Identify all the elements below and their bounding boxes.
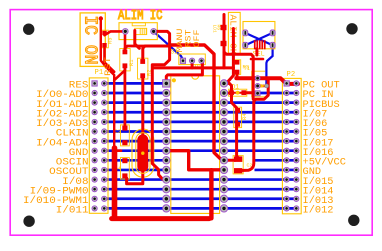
resistor R5 silkscreen box: [101, 30, 108, 48]
capacitor C3 silkscreen box: [121, 125, 130, 146]
resistor R4 silkscreen box: [234, 107, 242, 127]
wire bottom power rail: [112, 216, 210, 221]
svg-text:R1: R1: [129, 60, 135, 66]
connector P2 pads 2x14: [284, 81, 299, 211]
wire regulator center pin: [135, 31, 140, 49]
mounting hole bottom-left: [23, 216, 34, 227]
capacitor C4 silkscreen box: [121, 158, 130, 180]
left pin name labels: [23, 80, 89, 217]
wire +V spine lower: [112, 148, 118, 216]
wire R3 riser to U1 pin15: [224, 29, 233, 84]
diode D1 silkscreen box: [229, 89, 247, 96]
R5 pads: [102, 31, 106, 35]
blue trace jumper to Q1 base via: [266, 45, 272, 84]
wire T1 base stub to via: [258, 85, 265, 88]
jumper SEL pads 2x2: [243, 30, 275, 48]
wire D1 wire through: [232, 92, 244, 94]
connector J1 "IC ON" silkscreen box: [80, 13, 105, 67]
wire spine stub row7: [115, 149, 122, 152]
D1 center dot: [236, 91, 240, 95]
wire U1 pin16 to C2: [224, 159, 235, 162]
resistor R2 silkscreen box: [138, 58, 148, 79]
C4 pads: [122, 158, 127, 163]
wire from S1 area down to U1 pin16: [214, 68, 224, 160]
C2 pads: [234, 156, 242, 162]
T1 pointer mark: [261, 84, 266, 88]
SEL jumper hatched body: [254, 40, 266, 49]
svg-text:IC ON: IC ON: [80, 16, 100, 65]
svg-text:P1: P1: [95, 69, 104, 77]
svg-text:OFF: OFF: [192, 30, 202, 48]
regulator tab mark: [132, 23, 145, 26]
wire R5 to spine: [105, 45, 115, 72]
resistor R3 silkscreen box: [233, 60, 240, 75]
blue jumper cross X: [245, 33, 272, 45]
connector P2 silkscreen box: [282, 78, 301, 213]
wire U1 pin15 to D1: [224, 83, 232, 90]
jumper SEL silkscreen box: [243, 22, 275, 49]
R2 pads: [140, 59, 145, 64]
wire crystal to C4: [127, 166, 143, 184]
wire SEL body feed: [255, 49, 258, 55]
wire power rail riser: [209, 170, 213, 218]
R4 pads: [235, 108, 240, 113]
wire D1 to T1 emitter: [244, 91, 258, 94]
connector P1 pads 2x14: [92, 81, 107, 211]
svg-text:P2: P2: [287, 71, 296, 79]
via near T1 base: [265, 84, 269, 88]
crystal Q1 body: [137, 134, 148, 171]
wire knot to S1 bypass bar: [170, 45, 214, 69]
wire regulator in left stub: [105, 31, 126, 35]
wire LED vertical: [223, 15, 226, 68]
switch S1 silkscreen box: [179, 54, 206, 65]
R1 pads: [123, 50, 128, 55]
right pin name labels: [303, 80, 346, 217]
resistor R1 silkscreen box: [120, 49, 130, 71]
svg-text:C3: C3: [115, 129, 121, 135]
switch S1 pads: [180, 58, 204, 63]
blue trace regulator to S1 (diagonal): [154, 31, 183, 60]
regulator U3 silkscreen box: [119, 23, 157, 40]
wire SEL lower link: [251, 58, 263, 61]
svg-text:ALIM IC: ALIM IC: [118, 8, 163, 24]
wire S1 pin3 to U1 pin1: [166, 61, 202, 84]
svg-text:R3: R3: [243, 65, 249, 71]
IC ON connector pad: [99, 16, 103, 20]
capacitor C2 silkscreen box: [233, 156, 243, 174]
wire knot hook chain to U1 pin7: [152, 46, 169, 180]
wire GND mid horizontal: [166, 151, 224, 170]
C3 pads: [122, 126, 127, 131]
svg-text:R4: R4: [242, 114, 248, 120]
wire +5V bus to PC OUT: [236, 78, 298, 84]
wire +V spine from IC ON connector: [101, 19, 114, 151]
svg-text:I/011: I/011: [56, 205, 89, 217]
wire knot top horizontal: [143, 46, 170, 60]
LED LD1 pads: [221, 25, 227, 30]
mounting hole top-right: [346, 23, 357, 34]
wire long horizontal under S1: [153, 66, 234, 69]
crystal Q1 outer outline: [132, 129, 154, 177]
svg-text:I/012: I/012: [303, 205, 334, 217]
wire regulator out right: [154, 31, 170, 46]
U1 pin1 yellow via dot: [172, 78, 176, 82]
R3 pads: [235, 60, 240, 65]
wire R3 to bus: [236, 72, 239, 78]
transistor T1 silkscreen box: [252, 71, 265, 97]
IC U1 pads DIP-28: [163, 80, 228, 212]
wire T1 collector drop: [241, 78, 268, 170]
regulator body hatched: [135, 28, 147, 34]
wire R1 to spine: [114, 66, 125, 80]
mounting hole bottom-right: [348, 215, 359, 226]
wire knot horizontal to R1: [125, 46, 145, 51]
crystal Q1 center dot: [141, 152, 144, 155]
transistor T1 pads: [255, 76, 260, 96]
LED LD1 silkscreen box: [228, 12, 240, 55]
regulator U3 pads: [122, 29, 156, 35]
D1 pads: [229, 90, 234, 95]
svg-text:R5: R5: [108, 38, 114, 44]
connector P1 silkscreen box: [89, 78, 108, 213]
bottom-layer blue traces (rows): [104, 83, 296, 208]
mounting hole top-left: [23, 24, 34, 35]
wire U1 pin14 stub: [224, 92, 229, 95]
wire LED to SEL: [224, 52, 253, 99]
svg-text:RST: RST: [103, 57, 113, 76]
wire S1 pin2 down: [191, 61, 194, 68]
wire regulator to R1: [124, 31, 127, 50]
wire R2 to crystal: [141, 76, 144, 138]
IC U1 silkscreen box with notch: [171, 76, 220, 214]
wire R1 to C3 riser: [124, 68, 127, 128]
wire D1 anode to R4 to C2: [232, 93, 239, 158]
crystal Q1 inner outline: [136, 133, 150, 174]
